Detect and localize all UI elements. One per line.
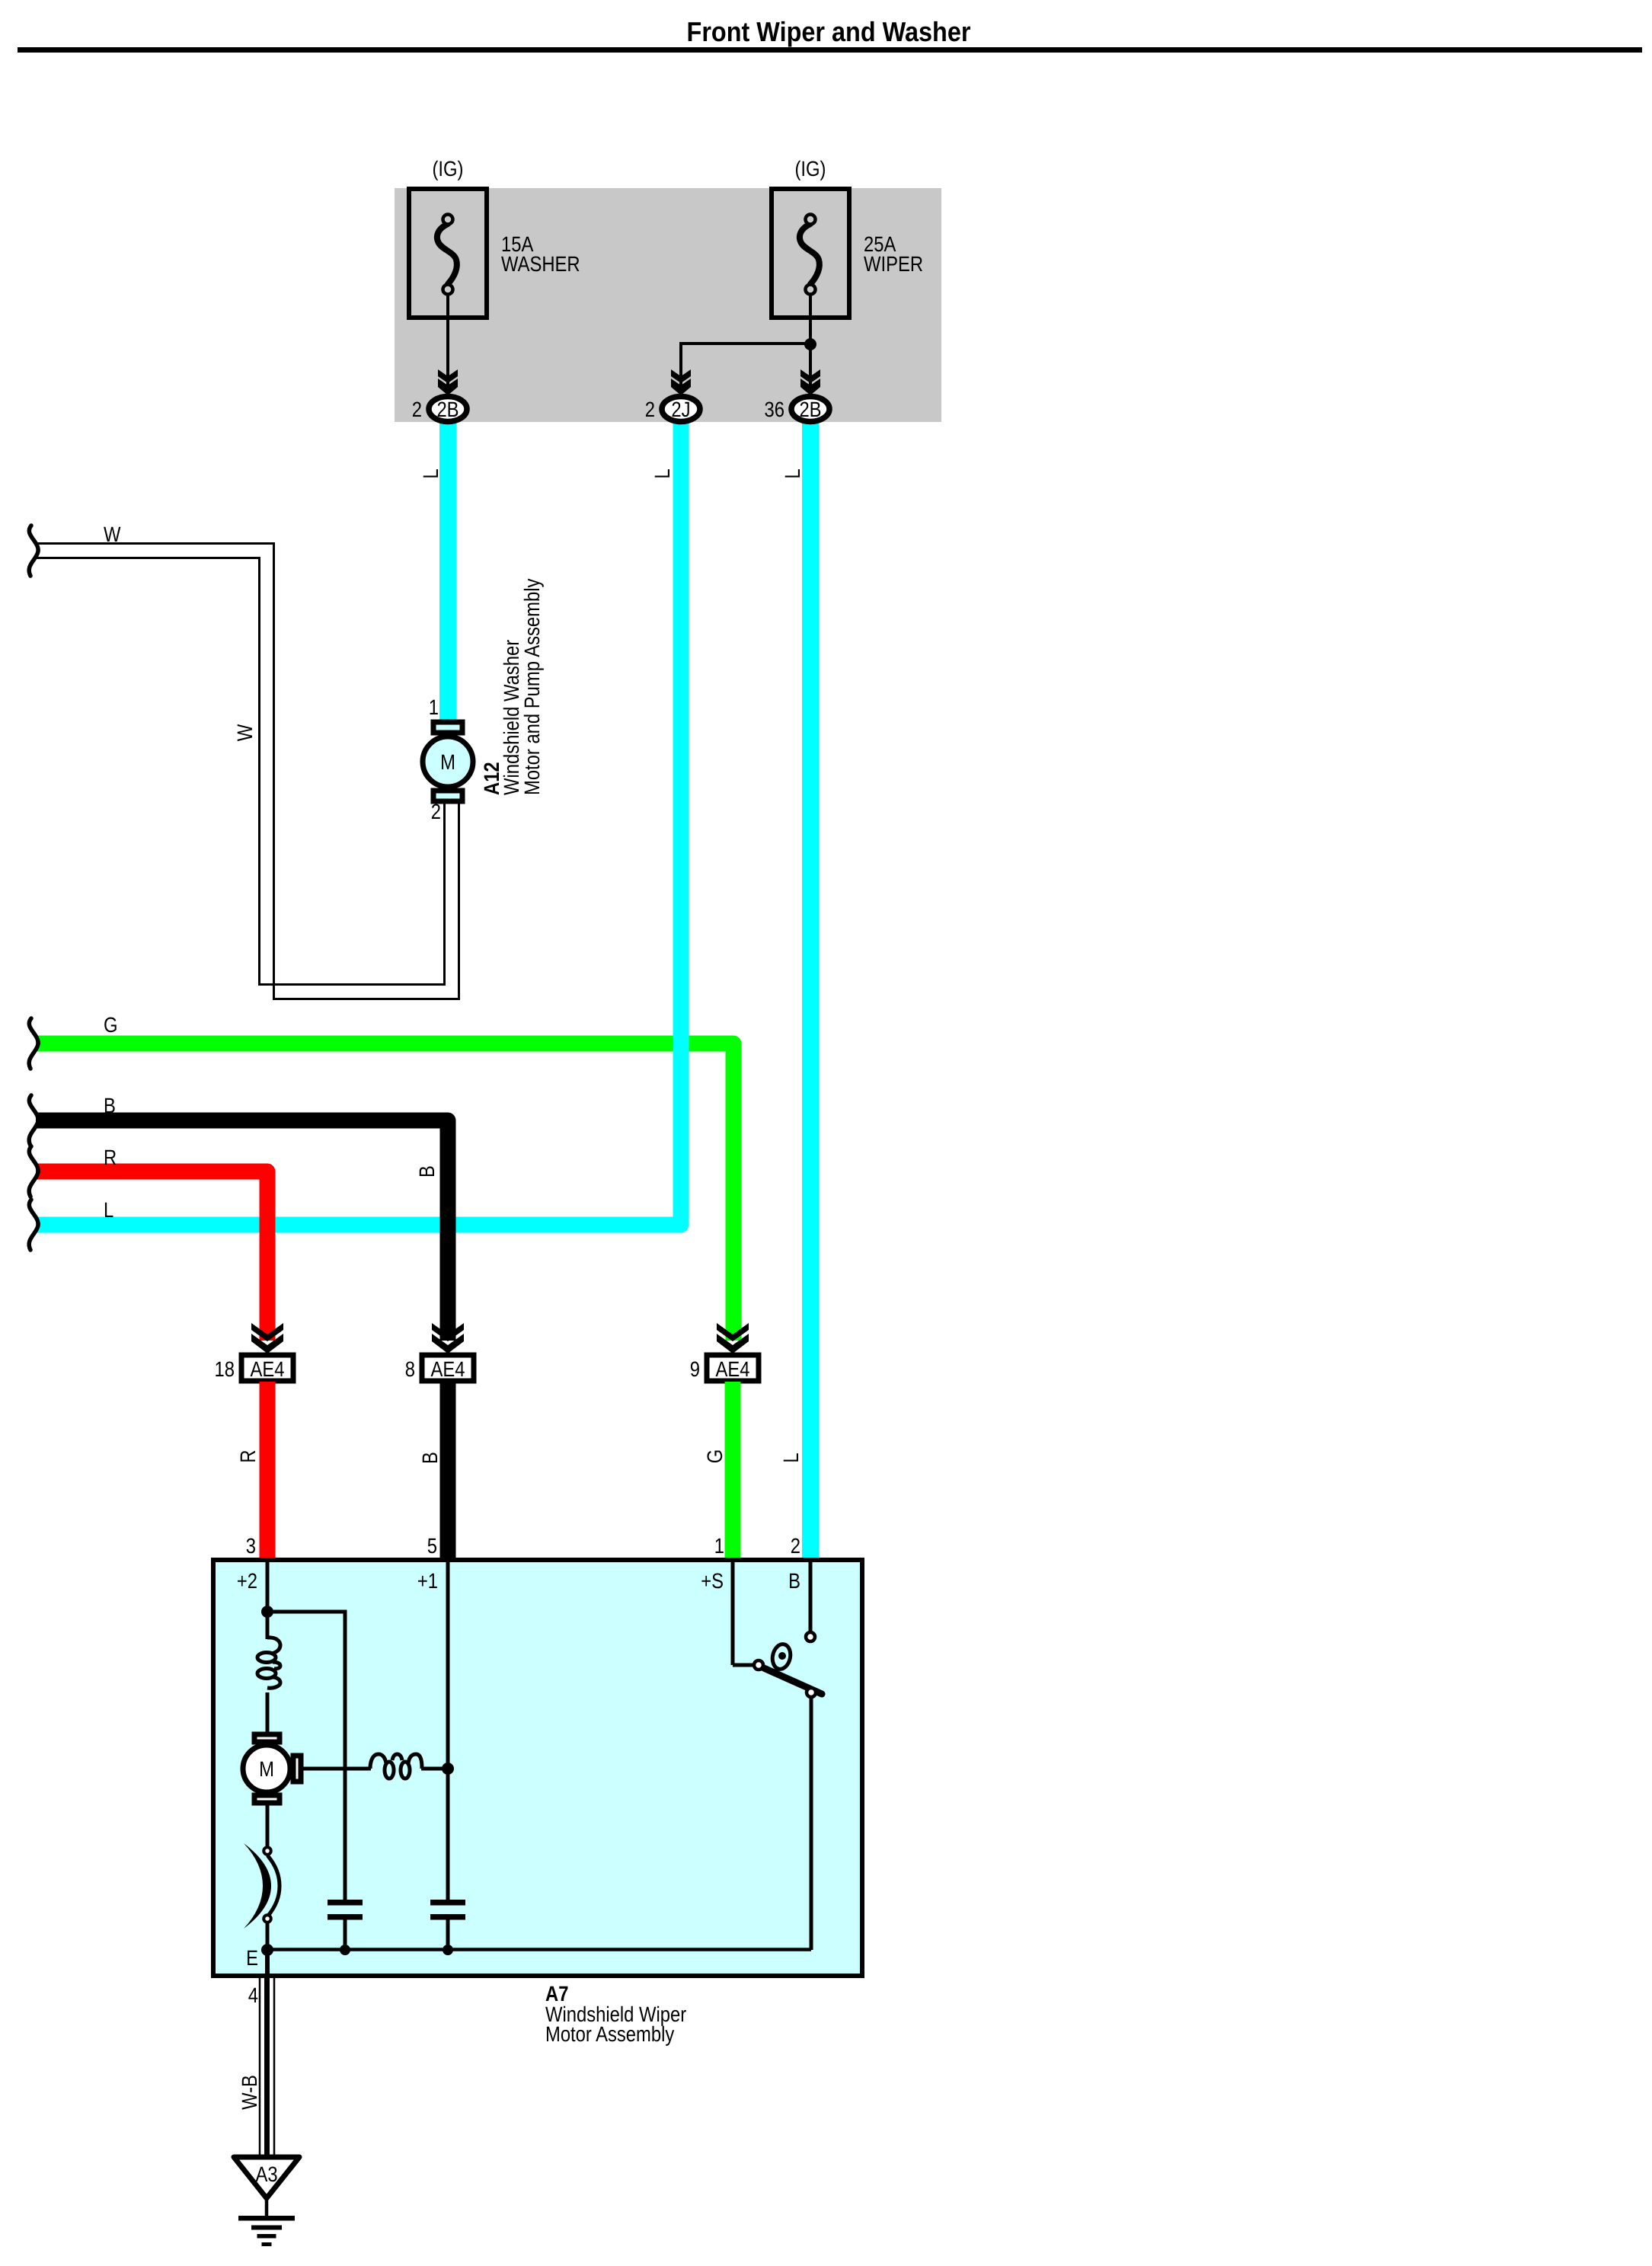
svg-text:Front Wiper and Washer: Front Wiper and Washer — [687, 16, 971, 47]
choke coil — [370, 1754, 422, 1779]
squiggle break B — [29, 1095, 38, 1146]
svg-text:(IG): (IG) — [795, 157, 826, 181]
relay block (gray box) — [395, 188, 941, 422]
A7 wiper motor assembly box — [213, 1560, 862, 1976]
svg-text:2: 2 — [791, 1534, 800, 1558]
AE4 connector pin 9 (green wire) — [707, 1323, 759, 1381]
svg-text:+1: +1 — [417, 1569, 438, 1593]
svg-text:G: G — [104, 1013, 118, 1037]
connector oval 2B (pin 2) — [429, 397, 467, 422]
wire W white double line — [36, 544, 459, 999]
wire junction to 2J branch — [681, 344, 810, 395]
svg-text:AE4: AE4 — [431, 1357, 465, 1381]
svg-text:5: 5 — [427, 1534, 437, 1558]
wire G green below AE4 — [725, 1382, 741, 1559]
connector oval 2B (pin 36) — [791, 397, 829, 422]
svg-text:2B: 2B — [799, 398, 821, 421]
squiggle break W — [29, 526, 38, 576]
E bus line — [267, 1948, 811, 1951]
fuse F1 15A WASHER — [409, 189, 487, 318]
junction dot +2 — [261, 1606, 273, 1618]
svg-text:R: R — [104, 1146, 117, 1169]
svg-text:B: B — [788, 1569, 800, 1593]
arrow into 2B (right) — [800, 369, 820, 395]
svg-text:18: 18 — [215, 1357, 235, 1381]
commutator — [244, 1804, 280, 1950]
svg-text:W-B: W-B — [238, 2075, 261, 2110]
wire F2 to junction — [809, 294, 812, 344]
wire B black from cowl — [36, 1120, 448, 1341]
svg-text:AE4: AE4 — [716, 1357, 750, 1381]
wire E to box edge — [265, 1950, 270, 1977]
svg-text:Motor Assembly: Motor Assembly — [545, 2022, 674, 2046]
arrow into 2J — [671, 369, 691, 395]
svg-text:3: 3 — [246, 1534, 256, 1558]
wire coil to motor — [266, 1692, 270, 1734]
squiggle break L — [29, 1200, 38, 1250]
squiggle break R — [29, 1146, 38, 1197]
branch wire to capacitor 1 — [267, 1612, 345, 1900]
capacitor 2 — [430, 1900, 465, 1950]
junction dot on +1 — [442, 1763, 454, 1775]
svg-text:+2: +2 — [237, 1569, 257, 1593]
squiggle break G — [29, 1018, 38, 1069]
svg-text:9: 9 — [690, 1357, 700, 1381]
svg-text:2: 2 — [645, 398, 655, 421]
wire G vertical overlap (over cyan) — [726, 1059, 742, 1341]
svg-text:M: M — [440, 750, 455, 774]
wiper motor M — [243, 1734, 301, 1803]
svg-text:B: B — [104, 1094, 116, 1117]
washer motor A12 — [423, 722, 473, 801]
wire junction down to 2B(36) — [809, 344, 812, 395]
svg-text:R: R — [236, 1449, 260, 1462]
svg-text:8: 8 — [405, 1357, 415, 1381]
junction dot below F2 — [804, 338, 816, 350]
svg-text:1: 1 — [714, 1534, 724, 1558]
svg-text:L: L — [650, 468, 674, 478]
capacitor 1 — [328, 1900, 363, 1950]
wire +2 internal — [266, 1562, 270, 1639]
wire choke to +1 line — [421, 1767, 448, 1771]
wire W-B to ground — [260, 1977, 274, 2156]
svg-text:2B: 2B — [436, 398, 459, 421]
svg-text:L: L — [779, 1453, 803, 1462]
svg-text:36: 36 — [765, 398, 784, 421]
wire L cyan from 2B(36) to A7 pin 2 — [802, 421, 819, 1559]
arrow into 2B (left) — [438, 369, 458, 395]
wire F1 to connector 2B — [446, 294, 449, 395]
connector oval 2J (pin 2) — [662, 397, 700, 422]
fuse F2 25A WIPER — [772, 189, 849, 318]
svg-text:E: E — [246, 1946, 258, 1970]
svg-text:1: 1 — [429, 695, 439, 719]
svg-text:4: 4 — [248, 1983, 258, 2007]
wire L cyan from 2J to cowl — [36, 421, 681, 1225]
svg-text:AE4: AE4 — [251, 1357, 285, 1381]
wire R red from cowl — [36, 1171, 267, 1341]
svg-text:L: L — [781, 468, 804, 478]
wire motor to choke — [301, 1767, 371, 1771]
wire L cyan from 2B to washer motor pin 1 — [439, 421, 456, 724]
svg-text:WIPER: WIPER — [864, 252, 923, 276]
svg-text:B: B — [415, 1165, 439, 1178]
svg-text:2: 2 — [412, 398, 422, 421]
svg-text:WASHER: WASHER — [501, 252, 580, 276]
AE4 connector pin 18 (red wire) — [241, 1323, 293, 1381]
svg-text:M: M — [259, 1757, 274, 1781]
wire B black below AE4 — [440, 1382, 456, 1559]
svg-text:(IG): (IG) — [433, 157, 464, 181]
svg-text:W: W — [233, 724, 257, 741]
wire G green from cowl — [36, 1044, 733, 1341]
svg-text:2J: 2J — [671, 398, 690, 421]
svg-text:Motor and Pump Assembly: Motor and Pump Assembly — [520, 579, 544, 795]
svg-text:G: G — [703, 1449, 727, 1464]
wire R red below AE4 — [260, 1382, 276, 1559]
svg-text:L: L — [419, 468, 443, 478]
svg-text:L: L — [104, 1198, 113, 1222]
svg-text:A3: A3 — [255, 2162, 277, 2186]
field coil — [257, 1638, 280, 1688]
AE4 connector pin 8 (black wire) — [422, 1323, 474, 1381]
E junction dots — [261, 1944, 273, 1956]
svg-text:B: B — [418, 1452, 442, 1464]
svg-text:+S: +S — [701, 1569, 724, 1593]
park switch — [733, 1562, 822, 1950]
wire +1 internal — [446, 1562, 450, 1900]
title rule — [18, 47, 1642, 53]
ground A3 — [234, 2157, 299, 2246]
